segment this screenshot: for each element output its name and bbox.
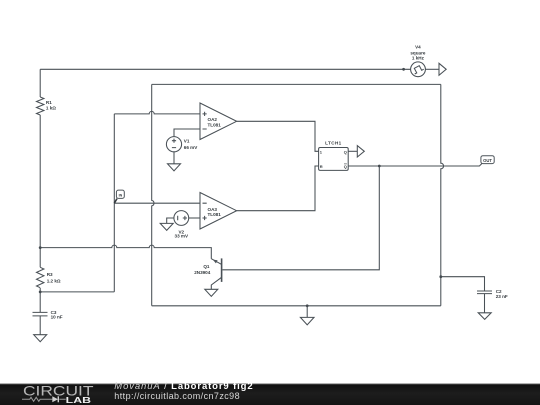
capacitor C2: [477, 291, 492, 294]
junction at ground rail: [306, 304, 309, 307]
arrow at Q output: [357, 146, 364, 157]
source V1: [166, 137, 181, 152]
svg-text:Q1: Q1: [203, 264, 210, 269]
source V2: [174, 211, 189, 226]
svg-text:OA2: OA2: [208, 117, 218, 122]
ground below C3: [34, 335, 47, 342]
wire left rail mid: [39, 115, 41, 267]
wire Qbar to Q1 base: [222, 166, 379, 270]
svg-text:66 mV: 66 mV: [184, 145, 198, 150]
op-amp OA3: [200, 193, 237, 230]
node flag OUT: [481, 156, 494, 164]
transistor Q1: [221, 258, 223, 282]
svg-text:TL081: TL081: [208, 212, 222, 217]
svg-text:1.2 kΩ: 1.2 kΩ: [47, 278, 61, 283]
svg-text:square: square: [410, 50, 426, 55]
svg-text:OUT: OUT: [483, 158, 492, 163]
wire OA3 out to latch pin R: [237, 166, 319, 211]
capacitor C3: [33, 312, 48, 316]
svg-text:1 kΩ: 1 kΩ: [46, 106, 56, 111]
svg-text:R3: R3: [47, 272, 53, 277]
svg-text:LAB: LAB: [66, 395, 91, 405]
wire IN to OA2 plus (hop over box wire): [114, 111, 200, 114]
wire C3 to ground: [39, 316, 41, 335]
svg-text:V4: V4: [415, 45, 421, 50]
wire OA2 out to latch pin 1: [237, 121, 319, 151]
svg-text:IN: IN: [119, 194, 123, 198]
resistor R3: [37, 267, 44, 287]
svg-text:1 kHz: 1 kHz: [412, 56, 425, 61]
op-amp OA2: [200, 103, 237, 140]
wire IN to OA3 minus: [114, 202, 200, 204]
ground below Q1: [205, 289, 218, 296]
wire latch Qbar to OUT: [348, 164, 482, 167]
svg-text:33 mV: 33 mV: [175, 234, 189, 239]
wire V2 to OA3 plus: [189, 217, 200, 219]
footer bar: [0, 381, 540, 405]
wire C2 to ground: [484, 294, 486, 313]
ground left of V2: [160, 223, 173, 230]
svg-text:LTCH1: LTCH1: [325, 140, 342, 145]
svg-text:TL081: TL081: [208, 123, 222, 128]
svg-text:R: R: [320, 164, 323, 169]
junction node A (R1/R3 to Q1 collector rail): [39, 246, 42, 249]
wire top rail: [40, 68, 410, 70]
wire C2 branch: [441, 277, 485, 291]
wire R3 to C3: [39, 288, 41, 312]
wire V1 to OA2 minus: [174, 129, 200, 137]
resistor R1: [37, 97, 44, 115]
wire V2 to ground: [167, 218, 174, 223]
node flag IN: [114, 190, 124, 203]
svg-text:2N3904: 2N3904: [194, 270, 211, 275]
source V4: [411, 62, 426, 77]
wire collector rail (hops over IN wire and box wire): [40, 245, 211, 259]
junction node IN (R3/C3): [39, 291, 42, 294]
svg-text:Q: Q: [344, 149, 347, 154]
transistor Q1 arrow: [213, 260, 218, 264]
svg-text:Q: Q: [344, 164, 347, 169]
ground bottom rail: [300, 306, 314, 325]
wire box loop: [152, 84, 444, 305]
ground below V1: [168, 164, 181, 171]
latch LTCH1: [319, 148, 349, 171]
svg-text:http://circuitlab.com/cn7zc98: http://circuitlab.com/cn7zc98: [114, 391, 240, 401]
svg-text:23 nF: 23 nF: [496, 294, 508, 299]
junction at latch Qbar branch: [378, 165, 381, 168]
arrow at V4 output: [439, 63, 446, 75]
wire node IN vertical: [113, 114, 115, 292]
logo wire glyph: [22, 397, 66, 401]
svg-text:V1: V1: [184, 139, 190, 144]
svg-text:R1: R1: [46, 100, 52, 105]
wire R3 bottom to IN: [40, 291, 114, 293]
wire left rail: [39, 69, 41, 97]
wire V4 to arrow: [425, 68, 439, 70]
ground below C2: [478, 313, 491, 320]
junction at C2 branch: [439, 275, 442, 278]
wire latch Q output: [348, 150, 357, 152]
svg-text:10 nF: 10 nF: [51, 315, 63, 320]
wire V1 to ground: [173, 152, 175, 164]
junction at V4 input: [402, 68, 405, 71]
